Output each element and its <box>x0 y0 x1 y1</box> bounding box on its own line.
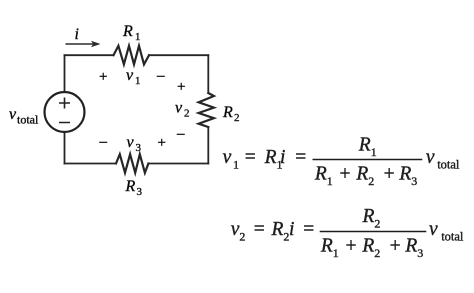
svg-text:R: R <box>271 219 284 240</box>
svg-text:=: = <box>303 219 314 240</box>
svg-text:=: = <box>295 147 306 168</box>
svg-text:R: R <box>264 147 277 168</box>
svg-text:1: 1 <box>371 145 377 159</box>
svg-text:total: total <box>437 158 460 172</box>
wire: R1 right lead to top-right corner <box>149 54 208 56</box>
svg-text:+: + <box>390 236 401 257</box>
wire: R3 left lead to bottom-left corner <box>65 163 117 165</box>
label v2 <box>175 100 190 120</box>
svg-text:2: 2 <box>368 174 374 188</box>
wire: Vtotal positive terminal to top-left corner <box>64 55 66 92</box>
voltage source Vtotal <box>45 92 85 132</box>
svg-text:2: 2 <box>374 246 380 260</box>
svg-text:total: total <box>441 230 464 244</box>
svg-text:R: R <box>362 206 375 227</box>
polarity - of v1 <box>156 68 165 84</box>
svg-text:R: R <box>222 104 233 121</box>
svg-text:v: v <box>9 106 17 123</box>
resistor R3 <box>116 154 148 173</box>
svg-text:R: R <box>361 236 374 257</box>
polarity - of v2 <box>176 126 185 142</box>
wire: R2 bottom lead to bottom-right corner <box>207 127 209 164</box>
label R2 <box>222 104 240 124</box>
label v1 <box>126 67 141 87</box>
wire: top-right corner to R2 top lead <box>207 55 209 93</box>
svg-text:R: R <box>320 236 333 257</box>
resistor R1 <box>114 46 150 65</box>
label i <box>75 26 79 43</box>
svg-text:1: 1 <box>135 75 141 87</box>
svg-text:v: v <box>126 67 134 84</box>
svg-text:R: R <box>398 164 411 185</box>
svg-text:–: – <box>156 68 165 84</box>
svg-text:3: 3 <box>417 246 423 260</box>
wire: bottom-left corner to Vtotal negative terminal <box>64 132 66 164</box>
svg-text:R: R <box>404 236 417 257</box>
svg-text:v: v <box>223 147 232 168</box>
svg-text:3: 3 <box>137 186 143 198</box>
label R1 <box>122 23 141 43</box>
svg-text:+: + <box>346 236 357 257</box>
equation 2: v2 = R2 i = R2/(R1+R2+R3) * v_total <box>231 206 464 260</box>
wire: bottom-right corner to R3 right lead <box>148 163 208 165</box>
label v_total <box>9 106 39 127</box>
svg-text:v: v <box>127 134 135 151</box>
svg-text:3: 3 <box>136 142 142 154</box>
label v3 <box>127 134 142 154</box>
svg-text:2: 2 <box>374 217 380 231</box>
svg-text:+: + <box>99 69 107 85</box>
svg-text:v: v <box>231 219 240 240</box>
resistor R2 <box>199 93 214 127</box>
svg-text:i: i <box>75 26 79 43</box>
svg-text:1: 1 <box>333 246 339 260</box>
svg-text:i: i <box>289 219 294 240</box>
svg-text:+: + <box>158 135 166 151</box>
wire: top-left corner to R1 left lead <box>65 54 114 56</box>
svg-text:total: total <box>17 113 39 127</box>
svg-text:–: – <box>176 126 185 142</box>
svg-text:R: R <box>355 164 368 185</box>
current arrow i <box>66 41 101 48</box>
svg-text:+: + <box>384 164 395 185</box>
svg-text:R: R <box>314 164 327 185</box>
svg-text:R: R <box>125 178 136 195</box>
svg-text:–: – <box>99 134 108 150</box>
svg-text:v: v <box>426 147 435 168</box>
svg-text:v: v <box>429 219 438 240</box>
svg-text:R: R <box>358 135 371 156</box>
svg-text:1: 1 <box>135 31 141 43</box>
polarity + of v2 <box>177 79 185 95</box>
polarity + of v1 <box>99 69 107 85</box>
svg-text:i: i <box>280 147 285 168</box>
svg-text:=: = <box>254 219 265 240</box>
polarity + of v3 <box>158 135 166 151</box>
svg-text:2: 2 <box>234 112 240 124</box>
svg-text:+: + <box>177 79 185 95</box>
svg-text:3: 3 <box>411 174 417 188</box>
svg-text:v: v <box>175 100 183 117</box>
svg-text:+: + <box>340 164 351 185</box>
polarity - of v3 <box>99 134 108 150</box>
equation 1: v1 = R1 i = R1/(R1+R2+R3) * v_total <box>223 135 460 189</box>
svg-text:=: = <box>245 147 256 168</box>
svg-text:1: 1 <box>233 158 239 172</box>
svg-text:2: 2 <box>239 230 245 244</box>
svg-text:R: R <box>122 23 133 40</box>
label R3 <box>125 178 143 198</box>
svg-text:2: 2 <box>184 108 190 120</box>
svg-text:1: 1 <box>327 174 333 188</box>
